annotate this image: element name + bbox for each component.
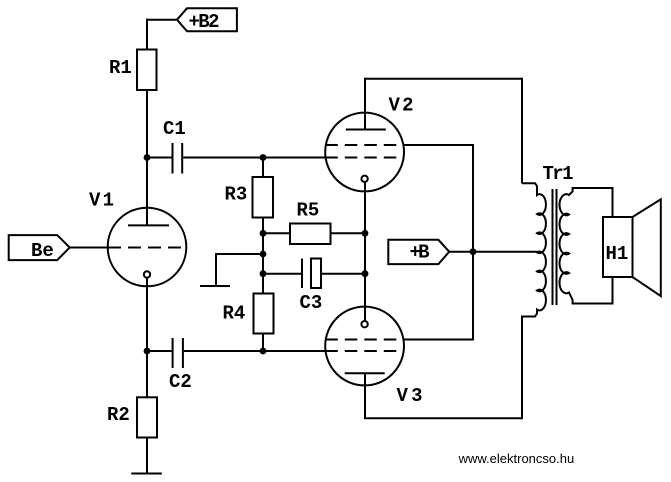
resistor R5: [290, 224, 331, 245]
wire secondary top to H1: [612, 187, 614, 217]
transformer Tr1 primary winding: [522, 183, 546, 419]
wire +B2 lead horizontal: [146, 19, 177, 21]
input tag Be: [9, 235, 70, 260]
svg-text:Tr1: Tr1: [543, 163, 574, 185]
wire R5 row right: [331, 232, 366, 234]
transformer Tr1 core: [553, 189, 557, 305]
node junction R4/C2 row: [260, 348, 267, 355]
wire V3 plate vertical: [364, 373, 366, 418]
svg-text:C3: C3: [300, 292, 323, 314]
wire secondary bottom to H1: [612, 277, 614, 305]
wire ground row: [216, 253, 263, 255]
ground mid symbol: [200, 285, 230, 287]
wire Be to V1 grid: [70, 247, 121, 249]
tube V3 plate: [345, 372, 385, 374]
wire C2 row left: [147, 350, 172, 352]
wire R1 bottom to V1 plate: [146, 90, 148, 225]
svg-text:R3: R3: [225, 184, 248, 206]
wire V3 screen to +B rail: [404, 339, 473, 341]
tube V2 screen grid (dashed): [325, 144, 404, 146]
node junction +B: [470, 248, 477, 255]
tube V3 envelope: [325, 307, 404, 386]
wire C3 row right: [322, 273, 365, 275]
node junction C1/R3: [260, 154, 267, 161]
node junction cathode/C2: [144, 348, 151, 355]
node junction C3/cathode rail: [362, 270, 369, 277]
wire transformer primary top vertical: [521, 78, 523, 184]
wire R4 bottom: [262, 334, 264, 352]
svg-text:www.elektroncso.hu: www.elektroncso.hu: [458, 451, 575, 466]
wire V2 plate vertical: [364, 78, 366, 130]
node junction ground row: [260, 251, 267, 258]
capacitor C3 (electrolytic): [301, 259, 303, 289]
wire bottom rail V3 plate: [364, 417, 522, 419]
tube V1 cathode: [144, 271, 150, 277]
tube V2 plate: [346, 129, 386, 131]
wire V2 cathode rail down to V3 cathode: [364, 182, 366, 321]
wire C3 row left: [263, 273, 301, 275]
svg-text:C1: C1: [163, 118, 186, 140]
tube V1 plate: [128, 224, 169, 226]
wire C1 to R3 junction to V2 grid: [183, 157, 329, 159]
wire +B to transformer tap: [473, 251, 537, 253]
speaker H1 cone: [633, 199, 661, 296]
wire V2 screen to +B rail: [404, 144, 473, 146]
tube V2 envelope: [325, 113, 404, 192]
wire V1 cathode down: [146, 278, 148, 398]
node junction R5/cathode rail: [362, 230, 369, 237]
speaker H1 body: [603, 217, 633, 277]
wire R1 top vertical: [146, 19, 148, 50]
ground below R2: [131, 473, 162, 475]
svg-text:R1: R1: [109, 57, 132, 79]
node junction R1/C1: [144, 154, 151, 161]
svg-text:C2: C2: [169, 371, 192, 393]
wire C1 row left: [147, 157, 172, 159]
svg-text:V3: V3: [397, 385, 423, 407]
transformer Tr1 secondary winding: [560, 188, 613, 304]
svg-text:R2: R2: [107, 404, 130, 426]
resistor R4: [254, 294, 274, 334]
svg-text:Be: Be: [31, 240, 54, 262]
wire R3 top: [262, 158, 264, 178]
svg-text:R5: R5: [297, 200, 320, 222]
resistor R2: [137, 397, 157, 437]
tube V3 screen grid (dashed): [325, 339, 404, 341]
wire R3 bottom to R4 top: [262, 218, 264, 294]
svg-text:+B: +B: [410, 242, 430, 264]
wire R5 row left: [263, 232, 290, 234]
tube V1 grid (dashed): [108, 247, 186, 249]
capacitor C1: [173, 143, 183, 174]
tube V1 envelope: [108, 208, 187, 287]
wire R2 bottom: [146, 438, 148, 474]
node junction C3 row left: [260, 270, 267, 277]
tube V3 control grid (dashed): [325, 350, 404, 352]
svg-text:H1: H1: [606, 243, 629, 265]
svg-text:V1: V1: [89, 190, 114, 212]
resistor R1: [137, 50, 157, 91]
svg-text:V2: V2: [389, 95, 414, 117]
wire top rail V2 plate: [365, 78, 522, 80]
tube V2 cathode: [361, 176, 367, 182]
svg-text:+B2: +B2: [189, 11, 220, 33]
tube V2 control grid (dashed): [325, 157, 404, 159]
node junction R3/R5: [260, 230, 267, 237]
wire +B vertical rail: [472, 144, 474, 341]
wire ground lead down: [215, 253, 217, 286]
supply tag +B2: [177, 8, 237, 31]
resistor R3: [253, 177, 274, 218]
svg-text:R4: R4: [223, 303, 246, 325]
supply tag +B: [388, 240, 449, 264]
wire C2 to R4 junction to V3 grid: [184, 350, 329, 352]
tube V3 cathode: [361, 321, 367, 327]
wire +B to junction: [449, 251, 473, 253]
capacitor C2: [173, 338, 183, 368]
